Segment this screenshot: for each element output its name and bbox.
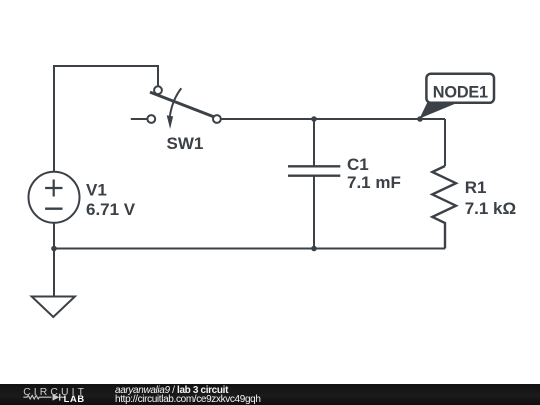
svg-text:7.1 kΩ: 7.1 kΩ bbox=[465, 199, 516, 218]
svg-text:6.71 V: 6.71 V bbox=[86, 200, 136, 219]
svg-text:LAB: LAB bbox=[64, 394, 85, 404]
svg-text:R1: R1 bbox=[465, 178, 487, 197]
svg-text:C1: C1 bbox=[347, 155, 369, 174]
svg-text:NODE1: NODE1 bbox=[433, 84, 488, 102]
svg-text:SW1: SW1 bbox=[167, 134, 204, 153]
svg-text:V1: V1 bbox=[86, 181, 107, 200]
svg-text:7.1 mF: 7.1 mF bbox=[347, 173, 401, 192]
